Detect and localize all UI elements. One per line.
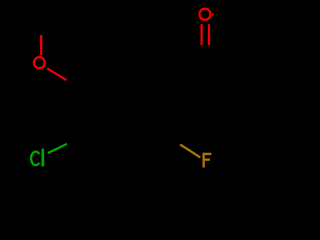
node F fluorine glyph top arm <box>203 153 212 155</box>
wire: bond O-C5 oxygen half (red diagonal) <box>47 68 67 80</box>
wire: bond C1-Cco acetyl (black) <box>164 62 205 86</box>
node F fluorine glyph middle arm <box>203 159 211 161</box>
wire: bond Cl-C4 chlorine half (green diagonal) <box>48 144 67 153</box>
wire: bond CH3-O methyl half (black) <box>40 11 42 35</box>
node Cl chlorine glyph letter C <box>31 152 39 166</box>
wire: C=O double bond oxygen half line 1 (red) <box>200 24 202 45</box>
wire: bond F-C2 fluorine half (gold diagonal) <box>180 144 200 157</box>
wire: ring bond C5-C6 (black, invisible on black bg) <box>92 61 121 95</box>
wire: bond C2-F ring half (black) <box>164 136 180 144</box>
node O methoxy oxygen glyph <box>34 57 45 68</box>
wire: C=O double bond oxygen half line 2 (red) <box>208 24 210 45</box>
wire: bond O-C5 ring half (black) <box>67 80 92 95</box>
wire: bond O-CH3 methoxy oxygen half (red vertical) <box>40 35 42 55</box>
wire: C=O double bond carbon halves (black) <box>201 45 203 63</box>
wire: ring bond C4-C5 <box>77 86 79 136</box>
node Cl chlorine glyph letter l <box>42 149 45 167</box>
node O carbonyl oxygen glyph <box>200 9 211 20</box>
wire: ring bond C2-C3 <box>121 136 164 160</box>
wire: ring bond C1-C2 <box>163 86 165 136</box>
wire: bond C4-Cl ring half (black) <box>67 134 88 144</box>
wire: ring bond C6-C1 <box>121 61 164 86</box>
node carbonyl O right nub artifact <box>212 14 214 16</box>
wire: ring bond C3-C4 <box>78 136 121 160</box>
wire: bond Cco-CH3 acetyl methyl (black) <box>205 62 248 86</box>
node F fluorine glyph stem <box>203 153 205 168</box>
